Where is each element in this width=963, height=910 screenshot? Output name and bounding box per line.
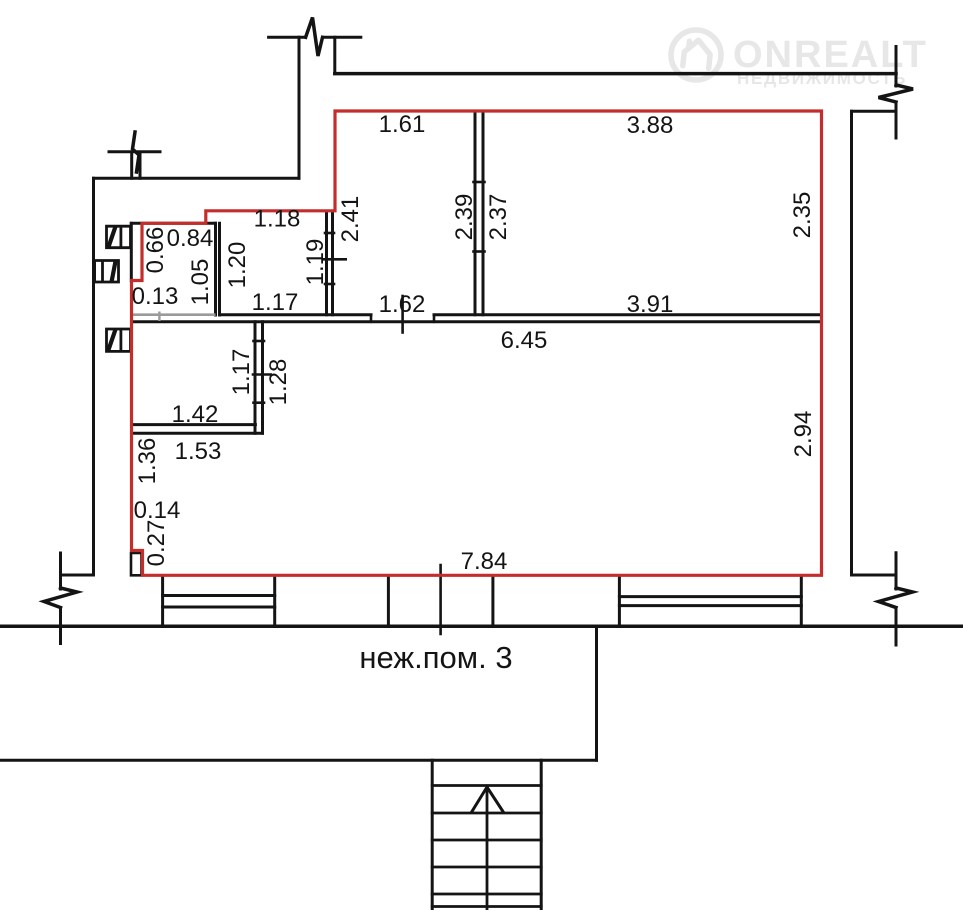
svg-text:3.91: 3.91	[627, 291, 674, 318]
svg-text:2.41: 2.41	[337, 196, 364, 243]
bathroom wall long tick y374.5	[253, 373, 271, 376]
wall top horizontal y73.6	[335, 72, 896, 76]
wire left break zigzag	[133, 132, 140, 172]
staircase side walls	[432, 760, 541, 910]
svg-text:1.17: 1.17	[252, 289, 299, 316]
vent box B2	[95, 261, 119, 283]
wall bathroom bottom lower y433.2	[133, 432, 263, 435]
svg-text:6.45: 6.45	[501, 327, 548, 354]
wall D tick y251.5	[474, 250, 485, 253]
wall main horizontal lower y321.8	[132, 320, 822, 323]
wall D double x475 x483 between rooms 1.61 and 3.88	[475, 111, 483, 315]
wall left break stubs x131.7 x140	[132, 152, 140, 178]
wall bottom long horizontal y626	[0, 625, 963, 629]
wire top-left break zigzag	[306, 18, 323, 57]
svg-text:1.05: 1.05	[187, 259, 214, 306]
svg-text:0.66: 0.66	[142, 227, 169, 274]
svg-text:3.88: 3.88	[627, 112, 674, 139]
wall closet top horizontal y223.3	[131, 222, 215, 225]
red unit boundary	[132, 111, 822, 575]
svg-text:неж.пом. 3: неж.пом. 3	[359, 640, 512, 675]
wall horizontal y575 right stub	[852, 574, 897, 577]
wire top-right break tick	[895, 47, 898, 139]
wall horizontal y575 left stub	[61, 574, 94, 577]
svg-text:1.19: 1.19	[302, 239, 329, 286]
window left glass lines	[163, 596, 275, 608]
wall bathroom bottom upper y424.6	[133, 423, 255, 426]
svg-text:1.62: 1.62	[379, 291, 426, 318]
wall vertical x93.5 left outer	[92, 178, 95, 575]
wire bottom-left break zigzag	[44, 588, 77, 608]
vent box B1	[107, 226, 131, 248]
wire top-right break zigzag	[879, 85, 914, 102]
wall D tick y182	[474, 181, 485, 184]
staircase arrow	[472, 787, 504, 812]
svg-text:0.27: 0.27	[143, 520, 170, 567]
bathroom wall tick y402.7	[254, 401, 265, 404]
wall horizontal y178 top-left	[94, 177, 300, 180]
svg-text:1.20: 1.20	[224, 242, 251, 289]
svg-text:7.84: 7.84	[461, 548, 508, 575]
wire bottom-right break zigzag	[879, 588, 913, 608]
svg-text:1.28: 1.28	[265, 359, 292, 406]
wall vertical x851.5 right	[850, 111, 853, 575]
svg-text:1.17: 1.17	[228, 349, 255, 396]
door jamb x434	[433, 315, 436, 322]
door bottom jamb x492.9	[491, 577, 494, 626]
wall closet left vertical x131.3	[130, 223, 133, 281]
svg-text:1.36: 1.36	[134, 438, 161, 485]
vent box B3	[107, 329, 131, 351]
wire bottom-right break tick	[895, 553, 898, 645]
svg-text:1.42: 1.42	[172, 401, 219, 428]
watermark logo circle with house	[671, 30, 721, 80]
svg-text:2.37: 2.37	[485, 194, 512, 241]
wall vertical x299 top-left	[298, 37, 301, 178]
wall notch vertical x596.5	[595, 626, 598, 760]
wall horizontal y111 right stub	[852, 110, 897, 113]
wall C tick y233	[325, 232, 334, 235]
dim tick x440.6 at 7.84	[439, 565, 442, 634]
door jamb x371	[370, 315, 373, 322]
wire top-left break tick	[269, 36, 361, 39]
svg-text:1.53: 1.53	[175, 438, 222, 465]
wall notch horizontal y760.3	[0, 759, 597, 762]
svg-text:2.35: 2.35	[789, 192, 816, 239]
wall C tick y284	[325, 283, 334, 286]
svg-text:2.39: 2.39	[451, 194, 478, 241]
door bottom jamb x388.4	[387, 577, 390, 626]
window right glass lines	[619, 597, 801, 606]
wall bathroom right double x255 x262.5	[255, 322, 263, 433]
bathroom wall tick y341	[254, 340, 265, 343]
wire left break tick	[109, 150, 160, 153]
dim tick x402.6 at 1.62 door	[401, 296, 404, 333]
svg-text:1.61: 1.61	[379, 111, 426, 138]
wire bottom-left break tick	[59, 553, 62, 644]
window left jambs	[163, 577, 275, 626]
wall main horizontal upper y314.8	[220, 313, 822, 316]
staircase steps	[432, 786, 541, 907]
staircase center divider	[486, 787, 489, 910]
wall C double x326.5 x332.5 between rooms 1.18 and 1.61	[327, 212, 333, 315]
svg-text:2.94: 2.94	[790, 411, 817, 458]
wall vertical x334.8 top	[333, 37, 336, 73]
wall C long tick y259.3	[323, 258, 346, 261]
black step box at red bottom-left	[131, 553, 142, 575]
window right jambs	[619, 577, 801, 626]
svg-text:1.18: 1.18	[254, 206, 301, 233]
gray tick x159.4	[158, 312, 160, 322]
gray closet bottom line	[131, 313, 215, 316]
wall closet right double x215.5 x219.5	[216, 223, 220, 315]
svg-text:0.13: 0.13	[132, 283, 179, 310]
svg-text:0.84: 0.84	[167, 225, 214, 252]
